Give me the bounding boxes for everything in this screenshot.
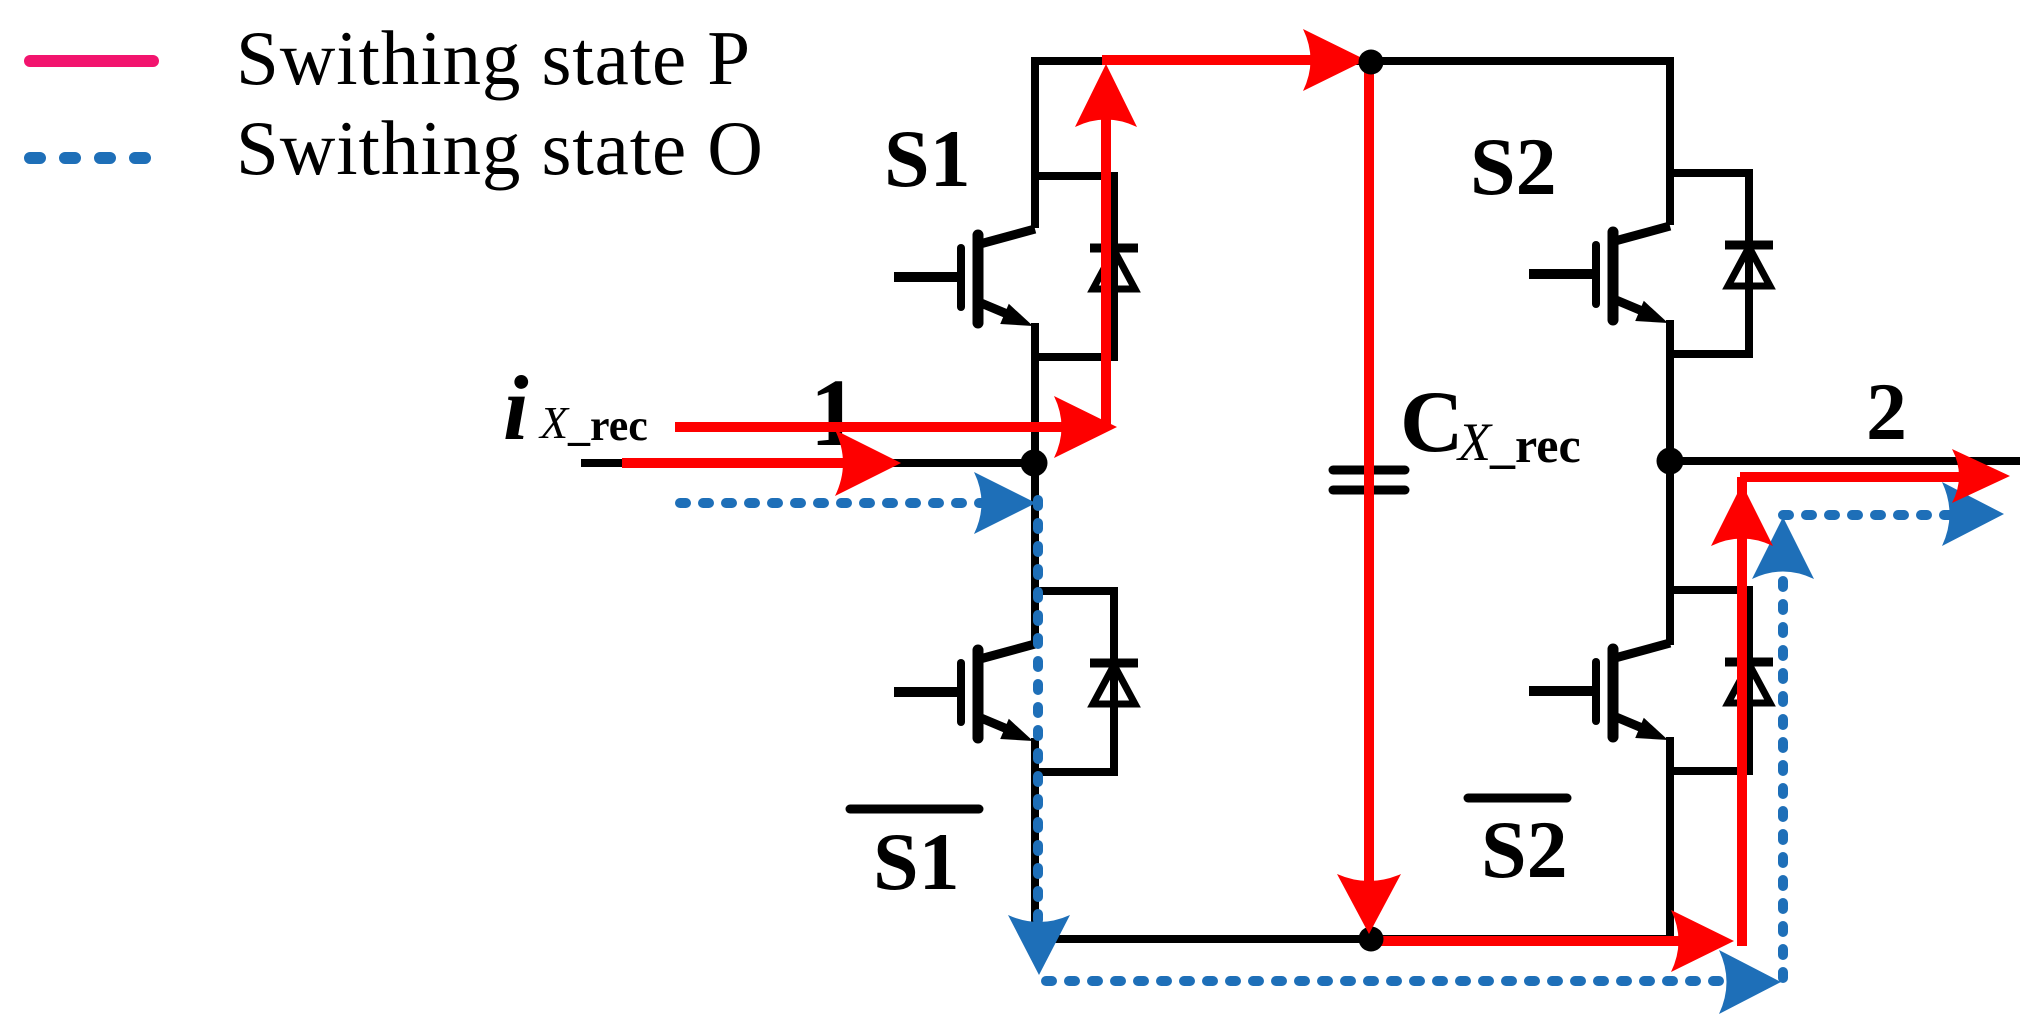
wire left leg upper segment [1031,57,1039,228]
wire S2bar diode loop [1670,590,1749,771]
wire state-O dashed right riser [1778,568,1788,978]
wire S1bar diode loop [1035,591,1114,772]
label i_X_rec [503,357,648,459]
legend: switching state P line sample [30,55,153,67]
wire bottom rail (N bus) [1035,935,1670,943]
arrowhead state-P at top node [1303,29,1366,91]
arrowhead state-P bottom rail [1671,910,1734,972]
arrowhead state-O up at right riser [1752,517,1814,579]
arrowhead state-P lower input [835,430,901,496]
capacitor C_X_rec plates [1333,470,1405,490]
svg-text:Swithing state P: Swithing state P [236,15,751,101]
svg-text:_rec: _rec [567,401,648,450]
svg-text:2: 2 [1866,366,1907,457]
arrowhead state-P at input corner [1054,396,1117,458]
wire state-O dashed input segment [680,498,988,508]
svg-text:X: X [1456,412,1493,472]
transistor S2 (IGBT) [1529,226,1670,323]
wire state-P bottom rail segment [1371,936,1686,946]
wire state-P top rail segment [1102,55,1318,65]
svg-text:S1: S1 [884,113,971,204]
legend: switching state O dashed line sample [30,152,152,164]
wire right leg upper segment [1666,57,1674,225]
node bottom rail junction dot [1359,927,1384,952]
arrowhead state-O input [974,472,1036,534]
wire output lead (node 2) [1670,457,2020,465]
diode D1 (anti-parallel) [1090,248,1138,289]
wire state-P riser through S1 diode [1101,112,1111,427]
diode D3 (anti-parallel) [1090,663,1138,704]
transistor S2bar (IGBT) [1529,643,1670,740]
wire right leg middle segment [1666,320,1674,645]
wire state-P riser through S2bar diode [1737,477,1747,946]
wire S1 diode loop [1035,176,1114,357]
wire input lead (node 1) [581,459,1035,467]
wire state-P capacitor drop [1364,61,1374,888]
wire state-O dashed bottom segment [1046,976,1730,986]
arrowhead state-O bottom-right corner [1719,950,1781,1014]
svg-text:_rec: _rec [1489,417,1581,473]
wire left leg lower segment [1031,738,1039,939]
svg-text:C: C [1400,374,1464,471]
node 1 junction dot [1021,450,1048,477]
wire left leg middle segment [1031,323,1039,646]
node top rail junction dot [1359,50,1384,75]
wire state-P upper input segment [675,422,1106,432]
transistor S1 (IGBT) [894,229,1035,326]
diode D2 (anti-parallel) [1725,245,1773,286]
arrowhead state-P up through S1 [1075,64,1137,127]
label S2-bar [1468,798,1568,895]
label C_X_rec [1400,374,1581,473]
svg-text:Swithing state O: Swithing state O [236,105,764,191]
wire state-P lower input segment [622,458,852,468]
arrowhead state-P up through S2bar [1711,484,1773,546]
arrowhead state-O output [1942,482,2004,546]
wire S2 diode loop [1670,173,1749,354]
diode D4 (anti-parallel) [1725,662,1773,703]
wire top rail (P bus) [1031,57,1674,65]
arrowhead state-P down into bottom node [1337,874,1401,934]
wire state-O dashed output segment [1783,510,1957,520]
svg-text:X: X [538,397,570,448]
svg-text:S2: S2 [1470,121,1557,212]
label S1-bar [850,809,979,907]
wire right leg lower segment [1666,737,1674,939]
wire state-O dashed left-leg drop [1033,500,1043,928]
transistor S1bar (IGBT) [894,644,1035,741]
arrowhead state-P output [1952,449,2010,503]
svg-text:i: i [503,357,529,459]
svg-text:S1: S1 [873,816,960,907]
wire state-P output segment [1740,472,1962,482]
svg-text:S2: S2 [1481,804,1568,895]
arrowhead state-O down at bottom-left [1008,915,1070,975]
node 2 junction dot [1657,448,1684,475]
